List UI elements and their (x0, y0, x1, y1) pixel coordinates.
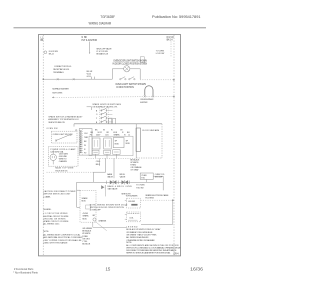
connector arrow A1 (101, 185, 105, 196)
svg-text:CHASSIS: CHASSIS (59, 160, 68, 163)
wire valve feed (94, 181, 108, 183)
svg-text:Y: Y (96, 118, 98, 120)
wire color legend (130, 159, 142, 172)
svg-text:TO OVEN: TO OVEN (156, 50, 165, 52)
wire igniter dashed (52, 96, 175, 99)
svg-text:CLK: CLK (84, 133, 88, 135)
label oven lock switch (156, 50, 165, 55)
labels bake broil (107, 173, 126, 178)
svg-text:OVEN DOOR LIGHT SWITCH SHOWN: OVEN DOOR LIGHT SWITCH SHOWN (113, 61, 147, 63)
footer page number (106, 267, 111, 272)
label spark harness block (48, 116, 83, 124)
relay K2 box (104, 138, 112, 149)
svg-text:CONNECTOR PLUG: CONNECTOR PLUG (54, 66, 72, 68)
label oven tod right (155, 174, 165, 179)
chassis dashed line left (42, 35, 44, 256)
bake solenoid L1V (110, 180, 117, 185)
inline connector X2 (73, 78, 75, 80)
svg-text:SWITCHES: SWITCHES (52, 92, 63, 94)
spark module U3 box (113, 138, 124, 148)
svg-text:VALVE: VALVE (107, 176, 113, 179)
svg-text:OVEN LIGHT SWITCH SHOWN: OVEN LIGHT SWITCH SHOWN (115, 84, 146, 86)
label oven burner igniter (140, 99, 154, 104)
diagram frame (39, 35, 181, 256)
label connector plug block (53, 66, 72, 74)
svg-text:ALL WIRING 105C: ALL WIRING 105C (43, 223, 60, 226)
oven light switch S7 box (51, 131, 77, 143)
relay K1 box (92, 138, 100, 149)
control module cluster box (89, 136, 133, 155)
ground chassis (92, 215, 107, 231)
terminal T2 box (104, 150, 111, 154)
svg-text:ALL WIRES 18GA UNLESS: ALL WIRES 18GA UNLESS (126, 236, 149, 239)
wire electrode loop (141, 200, 173, 224)
svg-text:IGNITER: IGNITER (140, 102, 148, 104)
label right of module (126, 140, 131, 145)
oven lock connector J2 (140, 57, 144, 63)
power plug P6 (50, 150, 56, 164)
label wiring code block (43, 209, 69, 225)
svg-text:W: W (103, 130, 105, 132)
oven lamp loop wires (112, 69, 140, 79)
svg-text:SURFACE BURNER: SURFACE BURNER (52, 88, 69, 91)
label spark electrode cables (145, 194, 169, 200)
gas valve box (106, 181, 130, 184)
svg-text:41-205: 41-205 (83, 213, 89, 215)
inline connector X1 (57, 78, 59, 80)
svg-text:SPARK CIRCUIT OR WIRE: SPARK CIRCUIT OR WIRE (43, 220, 69, 223)
svg-text:COIL: COIL (129, 217, 134, 219)
svg-text:BU BLUE: BU BLUE (82, 244, 91, 246)
svg-text:O: O (96, 114, 98, 116)
label wire colors near connector (87, 71, 93, 78)
svg-text:IGN SW: IGN SW (128, 201, 135, 203)
svg-text:GR: GR (92, 215, 95, 217)
label spark ignition switches (92, 103, 121, 109)
svg-text:NEUTRAL CIRCUIT W WIRE: NEUTRAL CIRCUIT W WIRE (43, 215, 69, 218)
header rule (14, 27, 207, 29)
svg-text:BK BLACK: BK BLACK (82, 230, 92, 233)
svg-text:GAS VALVE: GAS VALVE (108, 188, 119, 191)
spark switch SW5 (101, 116, 113, 119)
svg-text:TGF362BF: TGF362BF (100, 15, 115, 19)
oven lamp (124, 66, 130, 72)
label top burner (126, 196, 139, 198)
label see note (121, 194, 131, 196)
svg-text:TOP BURNER: TOP BURNER (126, 196, 139, 198)
svg-text:BK: BK (84, 141, 87, 143)
node N label top center (82, 37, 98, 42)
label note wiring (90, 204, 128, 211)
svg-text:MOD: MOD (83, 218, 88, 220)
svg-text:N BK: N BK (82, 37, 88, 39)
svg-text:CHASSIS: CHASSIS (98, 219, 107, 222)
label sp mod (82, 197, 90, 220)
wire from N down (89, 42, 90, 54)
svg-text:P3: P3 (90, 135, 92, 137)
node L1 label (41, 37, 44, 42)
svg-text:IN DOOR CLOSED POSITION & OVEN: IN DOOR CLOSED POSITION & OVEN (113, 64, 148, 66)
wire valve to tod (130, 176, 163, 190)
labels spark switch rows (96, 110, 98, 123)
svg-text:WIRING DIAGRAM: WIRING DIAGRAM (89, 22, 112, 26)
header publication number (152, 15, 201, 19)
svg-text:USED WITH THIS RANGE: USED WITH THIS RANGE (43, 241, 68, 244)
wire dashed harness (47, 171, 94, 173)
footer sheet number (190, 267, 204, 272)
wire N right dashed (170, 41, 172, 57)
label right note paragraph (126, 242, 181, 254)
svg-text:MOD: MOD (115, 144, 120, 146)
label surface burner valve switches (52, 88, 69, 95)
svg-text:GY GRAY: GY GRAY (130, 169, 139, 172)
svg-text:SW 590F: SW 590F (155, 176, 163, 178)
wire module drops (96, 154, 117, 158)
svg-text:TMR: TMR (84, 137, 89, 139)
svg-text:MOD: MOD (126, 143, 131, 145)
label oven light switch off position (115, 84, 146, 89)
svg-text:GY-8: GY-8 (87, 76, 91, 78)
svg-text:W: W (84, 145, 86, 147)
header model number (100, 15, 115, 19)
svg-text:& LABEL: & LABEL (43, 195, 51, 198)
svg-text:CLOCK 24HR ASM: CLOCK 24HR ASM (142, 129, 159, 132)
svg-text:TERMINALS: TERMINALS (53, 71, 64, 74)
svg-text:ROUTING: ROUTING (145, 198, 154, 200)
svg-text:TOD SW: TOD SW (136, 187, 143, 189)
svg-text:L1: L1 (128, 135, 130, 137)
spark electrode E2 (125, 212, 141, 222)
wire step down left (94, 158, 106, 182)
label color column (82, 228, 92, 246)
oven igniter HS1 (144, 86, 154, 98)
chassis dashed line right (173, 35, 175, 256)
clock display bar (136, 128, 140, 152)
svg-text:CAUTION: DISCONNECT POWER: CAUTION: DISCONNECT POWER (43, 190, 76, 193)
svg-text:N GY-8: N GY-8 (167, 37, 175, 39)
spark module box left (80, 190, 96, 222)
svg-text:B: B (96, 122, 98, 124)
oven TOD box (140, 173, 153, 182)
junction node at L1 feed (43, 78, 45, 80)
svg-text:ONLY COPPER CONDUCTORS SHALL B: ONLY COPPER CONDUCTORS SHALL BE (43, 239, 82, 242)
header title WIRING DIAGRAM (89, 22, 112, 26)
terminal T3 box (113, 150, 120, 155)
svg-text:OR ORANGE Y YELLOW BU BLUE: OR ORANGE Y YELLOW BU BLUE (126, 231, 153, 234)
svg-text:BK-14: BK-14 (167, 40, 174, 42)
wire dashed module bottom (86, 157, 136, 159)
svg-text:ON SURFACE VALVES 4 PL: ON SURFACE VALVES 4 PL (92, 106, 118, 109)
connector P3 (109, 118, 116, 123)
svg-text:LOCK SW: LOCK SW (156, 53, 165, 55)
bracket (87, 107, 92, 110)
label clock inside U4 (142, 129, 159, 132)
svg-text:BK-12: BK-12 (49, 54, 54, 56)
svg-text:* Non-Illustrated Parts: * Non-Illustrated Parts (13, 271, 38, 275)
wire electrode bottom (93, 222, 127, 227)
svg-text:HARNESS: HARNESS (55, 169, 68, 172)
wire lamp to neutral dashed (140, 79, 175, 81)
svg-text:RECEPTACLE 8-24: RECEPTACLE 8-24 (53, 68, 70, 71)
svg-text:OVEN SW: OVEN SW (46, 128, 57, 130)
svg-text:IN OFF POSITION: IN OFF POSITION (116, 87, 134, 89)
svg-text:SPARK ELECTRODE CABLE: SPARK ELECTRODE CABLE (145, 194, 169, 197)
svg-text:SPARK: SPARK (83, 215, 90, 218)
svg-text:15: 15 (106, 267, 111, 272)
label note paragraph (43, 231, 83, 245)
label GR-4 (173, 253, 179, 255)
svg-text:TOD: TOD (141, 178, 145, 180)
label oven light switch row (46, 128, 57, 130)
labels bus wires (95, 130, 123, 132)
connector pins P5 (92, 77, 95, 80)
svg-text:LEGEND: LEGEND (126, 226, 138, 228)
svg-text:ASSEMBLY TOP BURNERS 8-24: ASSEMBLY TOP BURNERS 8-24 (48, 118, 79, 121)
wire nut W1 (44, 51, 47, 54)
svg-text:16/36: 16/36 (190, 267, 204, 272)
svg-text:LEGEND:: LEGEND: (43, 209, 51, 211)
svg-text:Publication No: 5995417891: Publication No: 5995417891 (152, 15, 201, 19)
label oven door light switch (113, 61, 148, 66)
wire electrode dashed (141, 199, 174, 201)
svg-text:P2: P2 (84, 152, 86, 154)
label ground wire (59, 154, 69, 164)
door switch SW1 (120, 77, 127, 80)
svg-text:MOD: MOD (82, 201, 87, 203)
labels harness wires (96, 161, 100, 166)
broil solenoid L2V (122, 180, 129, 185)
spark switch SW4 (101, 112, 113, 115)
spark switch rail left (99, 108, 101, 124)
spark electrode E1 (125, 198, 141, 208)
spark switch SW3 (101, 108, 113, 111)
wire module to valve (113, 158, 115, 178)
wire main bus y127 (74, 124, 162, 127)
svg-text:SPARK SWITCH & HARNESS ASSY: SPARK SWITCH & HARNESS ASSY (48, 116, 83, 119)
svg-text:REFER TO SERVICE DATA SHEET FO: REFER TO SERVICE DATA SHEET FOR MORE DET… (126, 251, 171, 254)
svg-text:GR GREEN T TAN V VIOLET P PINK: GR GREEN T TAN V VIOLET P PINK (126, 234, 157, 237)
terminal T1 box (92, 150, 99, 154)
svg-text:AND NATIONAL ELECTRICAL CODES: AND NATIONAL ELECTRICAL CODES AND (43, 236, 83, 239)
label right legend block (126, 226, 161, 242)
door switch SW2 (129, 77, 135, 80)
wire branch left (77, 182, 94, 207)
footer functional parts (13, 267, 38, 274)
svg-text:MAIN TOP WIRE: MAIN TOP WIRE (55, 167, 74, 170)
electrode gap symbol (86, 205, 91, 209)
spark switch rail right (107, 108, 109, 124)
labels module row (90, 132, 130, 137)
label P1 (75, 130, 77, 132)
clock timer U2 box (79, 129, 92, 156)
svg-text:NOTE:: NOTE: (43, 231, 49, 233)
svg-text:& OVEN OFF: & OVEN OFF (90, 210, 102, 212)
wire main feed y79 (43, 78, 112, 80)
svg-text:BK-MAXI 8-18: BK-MAXI 8-18 (96, 53, 107, 56)
spark switch SW6 (101, 120, 113, 123)
svg-text:SPARK: SPARK (114, 134, 121, 137)
label main top harness (55, 167, 74, 173)
svg-text:BK BLACK W WHITE R RED GY GRAY: BK BLACK W WHITE R RED GY GRAY (126, 228, 161, 231)
svg-text:VALVE: VALVE (120, 176, 126, 179)
label gas valve (108, 185, 133, 191)
svg-text:DISCONNECT POWER BEFORE SERVIC: DISCONNECT POWER BEFORE SERVICING THIS A… (126, 249, 177, 252)
svg-text:SP: SP (115, 141, 118, 143)
svg-text:GR-4: GR-4 (173, 253, 179, 255)
svg-text:R: R (84, 149, 86, 151)
node N BK label top right (167, 37, 175, 42)
svg-text:BAKE & BROIL OVEN: BAKE & BROIL OVEN (108, 185, 133, 188)
label for wire nut (49, 51, 58, 56)
label to oven tod (136, 185, 145, 190)
svg-text:ALL WIRING MUST CONFORM TO LOC: ALL WIRING MUST CONFORM TO LOCAL (43, 234, 81, 237)
power cord box (48, 147, 78, 167)
svg-text:BK-8: BK-8 (96, 164, 100, 166)
svg-text:SEE NOTE BELOW: SEE NOTE BELOW (48, 122, 64, 124)
label shut-off valve block (96, 48, 112, 56)
label caution block (43, 190, 76, 198)
clock assembly U4 box (136, 124, 162, 158)
svg-text:B: B (96, 110, 98, 112)
